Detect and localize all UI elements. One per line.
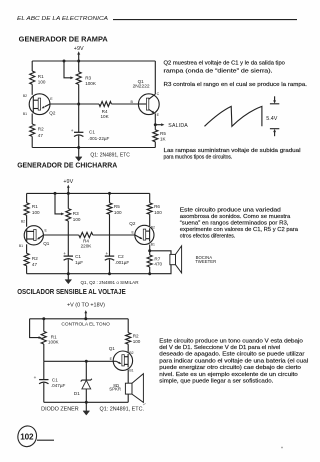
- wire R1 to middle row: [43, 344, 45, 361]
- node gnd junction 2: [67, 272, 70, 275]
- resistor R1 (pot 100K): [30, 319, 60, 345]
- speaker BOCINA TWEETER: [150, 246, 217, 274]
- svg-text:Q1: Q1: [43, 241, 50, 246]
- node supply junction 3: [84, 317, 87, 320]
- wire top rail 3: [30, 318, 129, 320]
- svg-text:1µF: 1µF: [75, 260, 83, 265]
- svg-text:B2: B2: [129, 351, 133, 355]
- speaker 8ohm SPKR: [109, 370, 143, 403]
- wire middle row 3: [44, 360, 113, 362]
- svg-text:1K: 1K: [160, 136, 167, 141]
- text paragraph 1: [164, 60, 308, 88]
- svg-text:C2: C2: [118, 254, 124, 259]
- svg-text:100: 100: [154, 210, 162, 215]
- capacitor C1: [71, 104, 110, 148]
- node supply junction 2: [67, 192, 70, 195]
- resistor R7: [147, 255, 162, 267]
- wire R5 to rail: [154, 142, 156, 148]
- sawtooth waveform graphic: [205, 96, 280, 136]
- svg-text:Q2: Q2: [129, 221, 136, 226]
- svg-text:del V de D1. Seleccione V de D: del V de D1. Seleccione V de D1 para el …: [159, 345, 280, 351]
- svg-text:R6: R6: [154, 204, 160, 209]
- node ground junction: [77, 146, 80, 149]
- node R7 bottom junction: [148, 272, 151, 275]
- svg-text:C1: C1: [75, 254, 81, 259]
- svg-text:OSCILADOR SENSIBLE AL VOLTAJE: OSCILADOR SENSIBLE AL VOLTAJE: [17, 289, 126, 296]
- wire collector: [154, 61, 156, 94]
- text paragraph 2: [180, 208, 298, 240]
- svg-text:R5: R5: [114, 204, 120, 209]
- svg-text:SPKR: SPKR: [109, 387, 121, 392]
- svg-text:+: +: [71, 128, 74, 133]
- node R1 junction: [42, 317, 45, 320]
- node D1 junction: [85, 360, 88, 363]
- svg-text:C1: C1: [89, 130, 95, 135]
- svg-text:R2: R2: [38, 127, 44, 132]
- wire bottom rail 3: [44, 401, 128, 403]
- svg-text:rampa (onda de “diente” de sie: rampa (onda de “diente” de sierra).: [164, 69, 273, 75]
- resistor R5: [153, 130, 167, 142]
- ground: [75, 148, 82, 162]
- svg-text:D1: D1: [74, 391, 80, 396]
- svg-text:B2: B2: [151, 225, 155, 229]
- svg-text:nivel. Este es un ejemplo exce: nivel. Este es un ejemplo excelente de u…: [159, 372, 297, 378]
- page number badge: [16, 424, 54, 448]
- svg-text:Q2 muestrea el voltaje de C1 y: Q2 muestrea el voltaje de C1 y le da sal…: [164, 60, 285, 66]
- svg-text:C: C: [157, 92, 160, 96]
- wire emitter row 2: [43, 234, 79, 236]
- svg-text:100: 100: [32, 210, 40, 215]
- wire R1 to Q2: [31, 84, 33, 95]
- +V supply node 3: [67, 302, 105, 318]
- wire top rail: [32, 60, 155, 62]
- stray mark: [281, 447, 283, 449]
- svg-text:+: +: [106, 251, 109, 256]
- svg-text:EL ABC DE LA ELECTRONICA: EL ABC DE LA ELECTRONICA: [17, 16, 108, 22]
- wire bottom rail: [32, 147, 155, 149]
- node speaker junction: [148, 249, 151, 252]
- svg-text:para muchos tipos de circuitos: para muchos tipos de circuitos.: [164, 154, 233, 160]
- svg-text:C1: C1: [52, 377, 58, 382]
- svg-text:R1: R1: [38, 74, 44, 79]
- svg-text:R3: R3: [85, 75, 91, 80]
- SALIDA output arrow: [155, 123, 188, 129]
- svg-text:GENERADOR DE CHICHARRA: GENERADOR DE CHICHARRA: [17, 162, 117, 169]
- resistor R2: [30, 124, 44, 138]
- capacitor C1 (.047uF): [34, 361, 66, 402]
- capacitor C1 (1uF): [63, 235, 83, 274]
- capacitor C2 (.001uF): [105, 235, 130, 274]
- svg-text:2N2222: 2N2222: [133, 83, 150, 88]
- svg-text:B2: B2: [23, 94, 27, 98]
- wire Q2 B1 down: [149, 245, 151, 256]
- wire R7 to rail: [149, 267, 151, 274]
- svg-text:R3: R3: [73, 211, 79, 216]
- transistor Q1 (2N2222 NPN): [130, 79, 159, 117]
- wire R1 to Q1: [26, 215, 28, 227]
- svg-text:47: 47: [38, 133, 44, 138]
- node SALIDA junction: [154, 123, 157, 126]
- svg-text:B1: B1: [23, 112, 27, 116]
- svg-text:TWEETER: TWEETER: [195, 259, 216, 264]
- transistor Q2 (UJT chicharra): [129, 221, 155, 246]
- svg-text:Este circuito produce un tono: Este circuito produce un tono cuando V e…: [159, 338, 303, 344]
- wire Q2 B1 to R2: [31, 114, 33, 125]
- ground 3: [83, 402, 90, 415]
- svg-text:Q1: 2N4891, ETC.: Q1: 2N4891, ETC.: [100, 407, 145, 413]
- svg-text:100K: 100K: [48, 340, 60, 345]
- resistor R1: [30, 71, 46, 84]
- svg-text:.001µF: .001µF: [115, 260, 130, 265]
- +9V supply node 2: [63, 179, 73, 193]
- wire R2 to bottom rail: [31, 136, 33, 147]
- wire left branch 2: [26, 193, 28, 202]
- svg-text:Las rampas suministran voltaje: Las rampas suministran voltaje de subida…: [164, 148, 301, 154]
- resistor R2 (chicharra): [24, 253, 38, 267]
- svg-text:100: 100: [73, 217, 81, 222]
- svg-text:+9V: +9V: [63, 179, 73, 185]
- svg-text:.047µF: .047µF: [51, 383, 66, 388]
- svg-text:Este circuito produce una vari: Este circuito produce una variedad: [180, 208, 281, 214]
- svg-text:Q1: Q1: [109, 346, 116, 351]
- svg-text:R5: R5: [160, 131, 166, 136]
- svg-text:B2: B2: [21, 219, 25, 223]
- svg-text:R2: R2: [32, 256, 38, 261]
- svg-text:100: 100: [38, 79, 46, 84]
- resistor R5 (chicharra): [107, 193, 122, 215]
- node pot wiper junction: [63, 60, 66, 63]
- svg-text:+: +: [34, 375, 37, 380]
- svg-text:220K: 220K: [81, 243, 93, 248]
- svg-text:otros efectos diferentes.: otros efectos diferentes.: [180, 233, 236, 239]
- svg-text:puede energizar otro circuito): puede energizar otro circuito) cae debaj…: [159, 365, 301, 371]
- resistor R2 (osc): [126, 319, 141, 344]
- svg-text:R1: R1: [32, 204, 38, 209]
- node gnd junction 3: [85, 401, 88, 404]
- resistor R6: [147, 193, 162, 215]
- svg-text:simple, que puede llegar a ser: simple, que puede llegar a ser sofistica…: [159, 379, 274, 385]
- transistor Q1 (UJT osc): [109, 346, 134, 373]
- resistor R4 (220K): [79, 232, 93, 248]
- svg-text:experimente con valores de C1,: experimente con valores de C1, R5 y C2 p…: [180, 227, 298, 233]
- svg-text:CONTROLA EL TONO: CONTROLA EL TONO: [61, 322, 110, 328]
- svg-text:100: 100: [133, 339, 141, 344]
- svg-text:100K: 100K: [85, 81, 97, 86]
- svg-text:“suena” en rangos determinados: “suena” en rangos determinados por R3,: [180, 221, 289, 227]
- node supply junction: [77, 60, 80, 63]
- resistor R1 (chicharra): [24, 203, 40, 215]
- node R5 top junction: [108, 192, 111, 195]
- resistor R3 (pot): [64, 61, 97, 86]
- svg-text:para indicar cuando el voltaje: para indicar cuando el voltaje de una ba…: [159, 358, 308, 364]
- svg-text:+: +: [63, 251, 66, 256]
- wire top rail 2: [27, 192, 150, 194]
- wire Q1 B1 to R2: [26, 244, 28, 253]
- wire R6 to Q2: [149, 214, 151, 226]
- svg-text:10K: 10K: [101, 114, 110, 119]
- svg-text:DIODO ZENER: DIODO ZENER: [41, 407, 79, 413]
- text paragraph 3: [159, 338, 308, 384]
- node wiper junction 2: [54, 192, 57, 195]
- wire left branch: [31, 61, 33, 71]
- svg-text:.001-22µF: .001-22µF: [88, 136, 109, 141]
- svg-text:B1: B1: [19, 244, 23, 248]
- svg-text:102: 102: [20, 433, 34, 442]
- wire R3 to emitter node: [78, 85, 80, 105]
- wire bottom rail 2: [27, 273, 150, 275]
- resistor R4: [99, 102, 111, 119]
- svg-text:Q2: Q2: [49, 111, 56, 116]
- node C1/R3 junction: [77, 103, 80, 106]
- svg-text:47: 47: [32, 262, 38, 267]
- +9V supply node: [74, 46, 84, 61]
- svg-text:B1: B1: [151, 242, 155, 246]
- svg-text:R1: R1: [51, 334, 57, 339]
- transistor Q1 (UJT chicharra): [19, 219, 50, 248]
- wire R3 to emitter row 2: [67, 221, 69, 235]
- wire R5 to emitter row: [109, 214, 111, 235]
- svg-text:+9V: +9V: [74, 46, 84, 52]
- wire R4 to Q1 base: [111, 103, 138, 105]
- svg-text:SALIDA: SALIDA: [168, 123, 188, 129]
- svg-text:asombrosa de sonidos. Como se: asombrosa de sonidos. Como se muestra: [180, 214, 291, 220]
- svg-text:Q1: 2N4891, ETC: Q1: 2N4891, ETC: [90, 153, 130, 159]
- diode D1 (zener): [74, 361, 92, 402]
- resistor R3 (pot chicharra): [55, 193, 81, 222]
- svg-text:B1: B1: [129, 368, 133, 372]
- text paragraph 1b: [164, 148, 301, 161]
- node C2 bottom junction: [108, 272, 111, 275]
- wire emitter row: [50, 103, 99, 105]
- wire R2 to Q1: [127, 344, 129, 352]
- svg-text:+V (0 TO +18V): +V (0 TO +18V): [67, 302, 105, 308]
- svg-text:GENERADOR DE RAMPA: GENERADOR DE RAMPA: [19, 37, 108, 44]
- transistor Q2 (UJT 2N4891): [23, 94, 56, 116]
- wire R2 to bottom rail 2: [26, 266, 28, 274]
- svg-text:5.4V: 5.4V: [266, 116, 277, 122]
- wire emitter down: [154, 113, 156, 129]
- ground 2: [65, 274, 72, 284]
- wire R4 to Q2 row: [93, 234, 135, 236]
- svg-text:deseado de apagado. Este circu: deseado de apagado. Este circuito se pue…: [159, 352, 304, 358]
- svg-text:R3 controla el rango en el cua: R3 controla el rango en el cual se produ…: [164, 82, 308, 88]
- svg-text:Q1, Q2 : 2N4891 o SIMILAR: Q1, Q2 : 2N4891 o SIMILAR: [81, 280, 139, 286]
- svg-text:470: 470: [154, 261, 162, 266]
- svg-text:100: 100: [114, 210, 122, 215]
